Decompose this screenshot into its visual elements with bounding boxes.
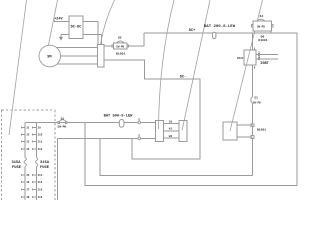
fuse BAT 200-S-LEW	[213, 32, 216, 38]
pin J16	[33, 196, 43, 199]
svg-text:J10: J10	[38, 134, 43, 137]
svg-text:D1001: D1001	[258, 38, 267, 42]
wire B1001 tap 1	[237, 124, 253, 126]
contactor box K1	[156, 121, 164, 142]
svg-text:J8: J8	[26, 196, 30, 199]
svg-text:J15: J15	[38, 189, 43, 192]
svg-text:J4: J4	[26, 148, 30, 151]
svg-text:BAT 200-S-LEW: BAT 200-S-LEW	[204, 25, 236, 29]
ground	[60, 35, 62, 38]
leader line 3 (controller)	[101, 0, 115, 45]
svg-text:J3: J3	[26, 141, 30, 144]
terminal E	[138, 121, 141, 124]
pin J1	[21, 126, 29, 129]
svg-text:IGBT: IGBT	[260, 62, 269, 66]
svg-text:J2: J2	[26, 134, 30, 137]
svg-text:J1: J1	[26, 127, 30, 130]
switch S4 (SW-PB)	[253, 21, 271, 31]
svg-text:W1: W1	[169, 135, 173, 138]
pin J8	[21, 196, 29, 199]
svg-text:SW-PB: SW-PB	[57, 126, 66, 129]
connector B1001 pin square 1	[251, 124, 254, 127]
IGBT pin 2	[258, 54, 259, 56]
svg-text:B1001: B1001	[116, 51, 125, 55]
contactor box K2	[179, 121, 187, 142]
svg-text:S3: S3	[254, 96, 258, 99]
svg-text:U1: U1	[169, 120, 173, 123]
switch S1 (SW-PB)	[58, 122, 60, 124]
motor 3M	[39, 45, 61, 67]
wire F line drop to edge	[56, 138, 58, 200]
fuse column 2	[36, 123, 38, 158]
leader line 2 (motor)	[48, 0, 57, 47]
device box B (horn)	[223, 122, 237, 140]
wire IGBT to S3	[252, 65, 254, 97]
wire fuse line 1 (key switch line)	[25, 122, 155, 124]
svg-text:J9: J9	[38, 127, 42, 130]
battery box (dashed)	[2, 109, 56, 111]
pin J13	[33, 174, 43, 177]
pin J4	[21, 148, 29, 151]
svg-text:315A: 315A	[11, 161, 21, 165]
wire W1	[164, 137, 180, 139]
wire F line	[57, 137, 155, 139]
wire S2 to DC+ rail	[127, 33, 144, 46]
svg-text:S2: S2	[118, 36, 122, 40]
leader line 6 (device box)	[230, 0, 263, 131]
svg-text:J6: J6	[26, 181, 30, 184]
svg-text:D13C: D13C	[237, 57, 244, 60]
wire motor phase 1	[52, 47, 98, 49]
wire S4 stub left	[253, 31, 255, 33]
wire DC- rail	[104, 60, 200, 159]
pin J5	[21, 174, 29, 177]
wire branch to B1001 loop	[100, 138, 253, 175]
svg-text:FUSE: FUSE	[12, 166, 22, 170]
fuse BAT 500-S-LEW	[119, 120, 124, 128]
leader line 1 (battery box)	[9, 0, 27, 135]
leader line 4 (contactor K1)	[159, 0, 175, 129]
wire IGBT pin2 stub	[256, 54, 278, 56]
svg-text:DC+: DC+	[189, 29, 195, 33]
svg-text:V1: V1	[169, 128, 173, 131]
svg-text:J7: J7	[26, 189, 30, 192]
pin J12	[33, 148, 43, 151]
pin J3	[21, 140, 29, 143]
wire B1001 tap 2	[237, 136, 253, 138]
IGBT pin 3	[258, 58, 259, 60]
svg-text:J16: J16	[38, 196, 43, 199]
svg-text:S1: S1	[60, 116, 64, 120]
wire ground to DC-DC	[61, 34, 69, 36]
switch S2 (SW-PB)	[114, 43, 128, 49]
leader line 5 (contactor K2)	[182, 0, 210, 131]
svg-text:FUSE: FUSE	[40, 166, 50, 170]
IGBT module Q1	[244, 50, 256, 65]
wire DC-DC output 2 to connector top	[83, 35, 101, 45]
pin J10	[33, 133, 43, 136]
svg-text:J11: J11	[38, 141, 43, 144]
svg-text:SW-PB: SW-PB	[116, 46, 124, 49]
wire V1	[164, 130, 180, 132]
wire DC-DC output 1 to connector top	[83, 22, 98, 45]
wire IGBT drop from DC+	[252, 33, 254, 50]
svg-text:S4: S4	[260, 14, 264, 18]
pin J15	[33, 188, 43, 191]
svg-text:SW-PB: SW-PB	[253, 102, 261, 105]
svg-text:J14: J14	[38, 181, 43, 184]
wire S4 stub right	[270, 31, 272, 33]
fuse column 1	[24, 123, 26, 158]
wire motor phase 3	[52, 63, 98, 65]
svg-text:+24V: +24V	[54, 18, 63, 22]
terminal F	[138, 137, 141, 140]
wire connector to S2	[104, 45, 114, 47]
wire +24V to DC-DC	[55, 20, 70, 22]
wire U1	[164, 123, 180, 125]
svg-text:3M: 3M	[47, 56, 52, 60]
DC-DC converter U1	[69, 16, 83, 38]
svg-text:J13: J13	[38, 174, 43, 177]
svg-text:SW-PB: SW-PB	[257, 25, 265, 28]
connector B1001 pin square 2	[251, 136, 254, 139]
pin J14	[33, 181, 43, 184]
wire S3 to bottom loop	[252, 103, 254, 175]
svg-text:BAT 500-S-LEW: BAT 500-S-LEW	[104, 115, 134, 119]
fuse F2 symbol	[35, 158, 37, 167]
pin J11	[33, 140, 43, 143]
fuse F1 symbol	[24, 158, 26, 167]
wire DC+ rail	[85, 33, 297, 185]
pin J6	[21, 181, 29, 184]
pin J7	[21, 188, 29, 191]
svg-text:J5: J5	[26, 174, 30, 177]
svg-text:315A: 315A	[40, 161, 50, 165]
svg-text:B1001: B1001	[257, 127, 266, 131]
controller connector (tall rect)	[98, 45, 105, 68]
svg-text:J12: J12	[38, 148, 43, 151]
wire motor phase 2	[52, 55, 98, 57]
pin J2	[21, 133, 29, 136]
wire IGBT pin3 stub	[256, 58, 278, 60]
pin J9	[33, 126, 41, 129]
switch S3 (SW-PB)	[251, 97, 253, 104]
svg-text:DC-: DC-	[180, 76, 186, 80]
svg-text:DC-DC: DC-DC	[71, 25, 83, 29]
